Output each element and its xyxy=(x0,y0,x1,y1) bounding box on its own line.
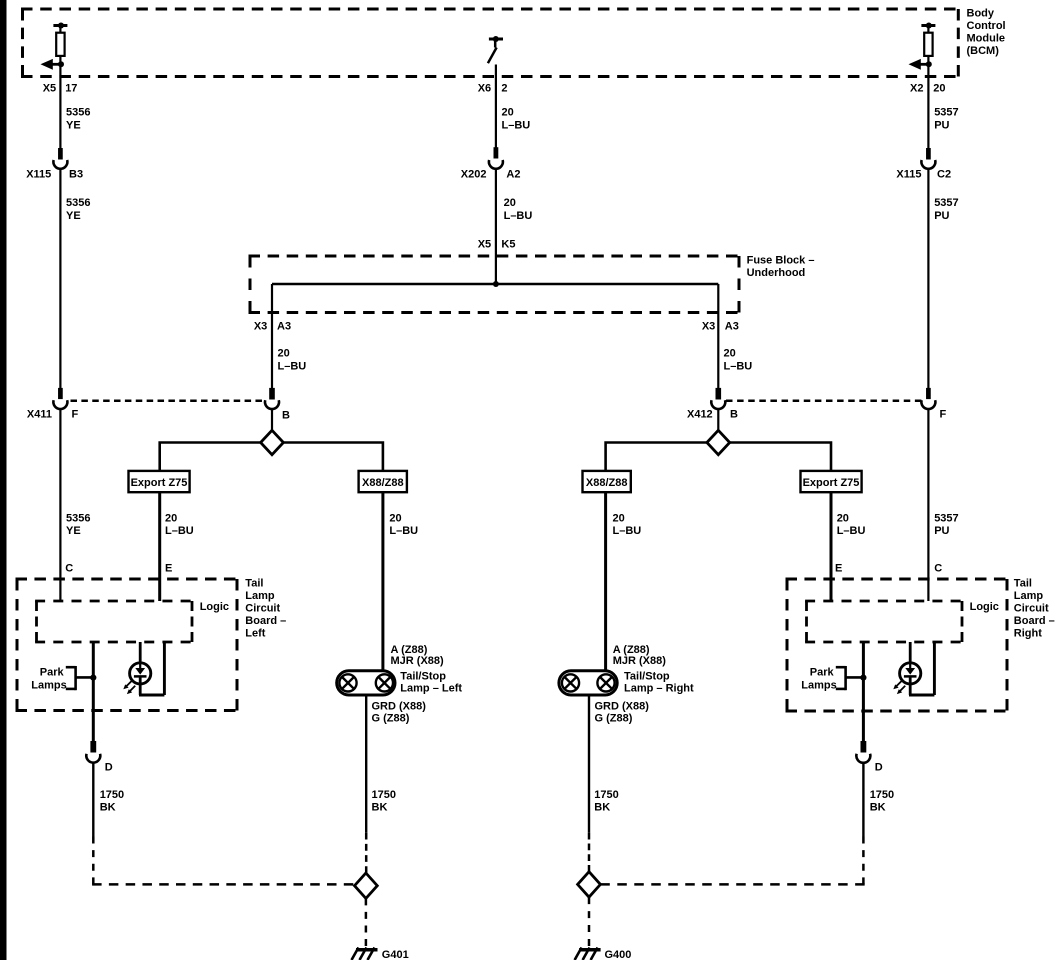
park lamps stub right xyxy=(836,666,862,690)
wire: splice to Export Z75 branch left xyxy=(160,443,261,472)
option box X88/Z88 right xyxy=(583,471,631,492)
svg-text:X5: X5 xyxy=(478,239,491,251)
svg-text:D: D xyxy=(875,762,883,774)
dashed wire: horizontal ground run right xyxy=(600,883,864,886)
svg-text:20: 20 xyxy=(389,513,401,525)
svg-text:B3: B3 xyxy=(69,169,83,181)
svg-text:Underhood: Underhood xyxy=(747,267,806,279)
junction node on bus xyxy=(493,281,499,287)
wire label 20 L-BU below Export right xyxy=(837,513,866,538)
svg-text:D: D xyxy=(105,762,113,774)
svg-text:L–BU: L–BU xyxy=(837,525,866,537)
dashed wire: splice to G400 xyxy=(588,897,591,946)
svg-text:Lamp – Right: Lamp – Right xyxy=(624,683,694,695)
svg-text:BK: BK xyxy=(372,802,388,814)
svg-text:Tail: Tail xyxy=(245,577,263,589)
svg-text:F: F xyxy=(72,408,79,420)
ground splice diamond left xyxy=(355,873,378,898)
svg-text:Control: Control xyxy=(967,20,1006,32)
svg-text:B: B xyxy=(730,408,738,420)
svg-text:A2: A2 xyxy=(506,169,520,181)
splice diamond right xyxy=(707,430,730,454)
svg-text:C: C xyxy=(65,562,73,574)
svg-text:MJR (X88): MJR (X88) xyxy=(391,655,445,667)
connector pin D left xyxy=(86,742,100,763)
svg-text:Right: Right xyxy=(1014,627,1042,639)
svg-text:Module: Module xyxy=(967,33,1006,45)
svg-text:L–BU: L–BU xyxy=(165,525,194,537)
svg-text:A (Z88): A (Z88) xyxy=(613,644,650,656)
svg-text:X6: X6 xyxy=(478,82,491,94)
svg-text:X88/Z88: X88/Z88 xyxy=(586,477,628,489)
svg-text:1750: 1750 xyxy=(100,789,124,801)
svg-text:G (Z88): G (Z88) xyxy=(595,713,633,725)
wire label 5356 YE xyxy=(66,197,90,222)
svg-text:20: 20 xyxy=(502,107,514,119)
BCM module box xyxy=(21,9,960,77)
Park Lamps label left xyxy=(31,667,66,692)
connector X411 pin F xyxy=(53,388,67,409)
wire label 20 L-BU below Export left xyxy=(165,513,194,538)
Tail Lamp Circuit Board Left box xyxy=(16,579,239,711)
wire: pin D down right xyxy=(862,762,864,836)
lamp name label left xyxy=(400,670,462,694)
svg-text:20: 20 xyxy=(165,513,177,525)
svg-text:X115: X115 xyxy=(26,169,51,181)
svg-text:5356: 5356 xyxy=(66,107,90,119)
svg-text:Board –: Board – xyxy=(245,615,286,627)
svg-text:20: 20 xyxy=(837,513,849,525)
svg-text:X3: X3 xyxy=(702,320,715,332)
pin label X5 17 xyxy=(43,82,78,94)
wire label 1750 BK left lamp xyxy=(372,789,396,814)
dashed wire: horizontal ground run left xyxy=(92,883,353,886)
ground splice diamond right xyxy=(578,872,601,897)
option box X88/Z88 left xyxy=(359,471,407,492)
svg-text:MJR (X88): MJR (X88) xyxy=(613,655,667,667)
svg-text:X5: X5 xyxy=(43,82,56,94)
svg-text:X115: X115 xyxy=(896,169,921,181)
svg-text:A (Z88): A (Z88) xyxy=(391,644,428,656)
junction node park lamps left xyxy=(90,675,96,681)
ground G400 symbol xyxy=(575,948,601,960)
svg-text:L–BU: L–BU xyxy=(502,119,531,131)
LED indicator right xyxy=(900,642,935,695)
Tail Lamp Circuit Board Right box xyxy=(786,579,1009,711)
svg-text:Park: Park xyxy=(40,667,65,679)
svg-text:5356: 5356 xyxy=(66,197,90,209)
board name label left xyxy=(245,577,286,639)
label X412 B xyxy=(687,408,738,420)
svg-text:X88/Z88: X88/Z88 xyxy=(362,477,404,489)
wire: X412 B to splice right xyxy=(717,409,719,432)
wire: pin D down left xyxy=(92,762,94,836)
wire: logic output down to pin D left xyxy=(92,642,95,742)
BCM left lamp driver xyxy=(41,23,68,70)
svg-text:Logic: Logic xyxy=(200,601,229,613)
connector X412 pin B left half xyxy=(265,388,279,409)
svg-text:L–BU: L–BU xyxy=(724,360,753,372)
wire label 5357 PU xyxy=(934,197,958,222)
pin label X6 2 xyxy=(478,82,508,94)
svg-text:Tail/Stop: Tail/Stop xyxy=(400,670,446,682)
wire: F down to board pin C right xyxy=(927,409,929,601)
label X115 C2 xyxy=(896,169,951,181)
svg-text:L–BU: L–BU xyxy=(278,360,307,372)
svg-text:YE: YE xyxy=(66,119,81,131)
lamp ground pin labels right xyxy=(595,701,650,725)
svg-text:Tail/Stop: Tail/Stop xyxy=(624,670,670,682)
svg-text:Left: Left xyxy=(245,627,265,639)
wire: BCM pin X2-20 down to connector X115 C2 xyxy=(927,64,929,149)
svg-text:Circuit: Circuit xyxy=(245,602,280,614)
svg-text:20: 20 xyxy=(724,348,736,360)
Logic box left xyxy=(35,601,193,642)
dashed tie line X412 to F right xyxy=(726,400,921,403)
svg-text:Export Z75: Export Z75 xyxy=(131,477,188,489)
svg-text:X3: X3 xyxy=(254,320,267,332)
svg-text:Export Z75: Export Z75 xyxy=(803,477,860,489)
wire label 5357 PU xyxy=(934,107,958,132)
wire: fuse block right drop X3-A3 xyxy=(717,284,719,389)
svg-text:L–BU: L–BU xyxy=(389,525,418,537)
svg-text:PU: PU xyxy=(934,210,949,222)
wire label 1750 BK right board xyxy=(870,789,894,814)
Park Lamps label right xyxy=(801,667,836,692)
svg-text:YE: YE xyxy=(66,525,81,537)
svg-text:X412: X412 xyxy=(687,408,713,420)
svg-text:GRD (X88): GRD (X88) xyxy=(372,701,427,713)
pin label X3 A3 right xyxy=(702,320,739,332)
wire: connector B to splice left xyxy=(271,409,273,432)
board name label right xyxy=(1014,577,1055,639)
svg-text:PU: PU xyxy=(934,119,949,131)
svg-text:Park: Park xyxy=(810,667,835,679)
svg-text:Fuse Block –: Fuse Block – xyxy=(747,255,815,267)
svg-text:20: 20 xyxy=(278,348,290,360)
svg-text:Body: Body xyxy=(967,8,995,20)
svg-text:G401: G401 xyxy=(382,949,409,960)
dashed wire: D to ground run right xyxy=(862,837,865,885)
svg-text:GRD (X88): GRD (X88) xyxy=(595,701,650,713)
wire: X88/Z88 to tail lamp right xyxy=(604,492,607,671)
wire: Export Z75 to board pin E right xyxy=(830,492,833,601)
lamp pin labels right xyxy=(613,644,667,667)
wire: BCM pin X5-17 down to connector X115 xyxy=(59,64,61,149)
wire: X411 F down to board pin C xyxy=(59,409,61,601)
svg-text:Lamp – Left: Lamp – Left xyxy=(400,683,462,695)
svg-text:1750: 1750 xyxy=(594,789,618,801)
svg-text:A3: A3 xyxy=(277,320,291,332)
svg-text:Logic: Logic xyxy=(970,601,999,613)
svg-text:Lamps: Lamps xyxy=(31,679,66,691)
wire: X202 A2 down to fuse block X5-K5 xyxy=(495,169,497,284)
park lamps stub left xyxy=(66,666,92,690)
LED indicator left xyxy=(130,642,165,695)
svg-text:Lamp: Lamp xyxy=(245,590,275,602)
dashed tie line X411 to X412 row left xyxy=(71,400,263,403)
svg-text:17: 17 xyxy=(65,82,77,94)
svg-text:5357: 5357 xyxy=(934,197,958,209)
wire label 1750 BK right lamp xyxy=(594,789,618,814)
connector X202 pin A2 xyxy=(489,148,503,169)
svg-text:Lamps: Lamps xyxy=(801,679,836,691)
svg-text:YE: YE xyxy=(66,210,81,222)
wire label 5356 YE xyxy=(66,513,90,538)
BCM park lamp switch xyxy=(488,36,503,63)
svg-text:X411: X411 xyxy=(27,408,52,420)
svg-text:(BCM): (BCM) xyxy=(967,45,1000,57)
svg-text:BK: BK xyxy=(594,802,610,814)
junction node park lamps right xyxy=(860,675,866,681)
wire label 20 L-BU below X88 right xyxy=(613,513,642,538)
svg-text:A3: A3 xyxy=(725,320,739,332)
Fuse Block label xyxy=(747,255,815,280)
wire: splice to X88/Z88 branch left xyxy=(283,443,383,472)
svg-text:G (Z88): G (Z88) xyxy=(372,713,410,725)
svg-text:C2: C2 xyxy=(937,169,951,181)
wire label 1750 BK left board xyxy=(100,789,124,814)
svg-text:PU: PU xyxy=(934,525,949,537)
lamp ground pin labels left xyxy=(372,701,427,725)
wire label 20 L-BU below X88 left xyxy=(389,513,418,538)
svg-text:X202: X202 xyxy=(461,169,487,181)
label X411 F xyxy=(27,408,79,420)
dashed wire: splice to G401 xyxy=(365,898,368,946)
label X115 B3 xyxy=(26,169,83,181)
LED light arrows right xyxy=(893,681,905,694)
splice diamond left xyxy=(261,430,284,454)
svg-text:Lamp: Lamp xyxy=(1014,590,1044,602)
lamp pin labels left xyxy=(391,644,445,667)
Tail/Stop Lamp Right bulb xyxy=(559,671,617,695)
lamp name label right xyxy=(624,670,694,694)
svg-text:5357: 5357 xyxy=(934,107,958,119)
svg-text:5357: 5357 xyxy=(934,513,958,525)
svg-text:L–BU: L–BU xyxy=(613,525,642,537)
svg-text:K5: K5 xyxy=(501,239,515,251)
wire label 20 L-BU right xyxy=(724,348,753,373)
svg-text:2: 2 xyxy=(501,82,507,94)
wire label 20 L-BU left xyxy=(278,348,307,373)
Fuse Block Underhood box xyxy=(249,256,741,313)
Logic box right xyxy=(805,601,963,642)
BCM right lamp driver xyxy=(909,23,936,70)
label X202 A2 xyxy=(461,169,521,181)
svg-text:G400: G400 xyxy=(605,949,632,960)
svg-text:20: 20 xyxy=(504,197,516,209)
connector X115 pin B3 xyxy=(53,149,67,169)
svg-text:Circuit: Circuit xyxy=(1014,602,1049,614)
wire label 20 L-BU xyxy=(504,197,533,222)
svg-text:20: 20 xyxy=(613,513,625,525)
wire: logic output down to pin D right xyxy=(862,642,865,742)
svg-text:L–BU: L–BU xyxy=(504,210,533,222)
wire label 5356 YE xyxy=(66,107,90,132)
wire: X88/Z88 to tail lamp left xyxy=(381,492,384,671)
svg-text:E: E xyxy=(165,562,172,574)
svg-text:B: B xyxy=(282,409,290,421)
BCM name label xyxy=(967,8,1006,58)
ground G401 symbol xyxy=(352,948,378,960)
svg-text:Tail: Tail xyxy=(1014,577,1032,589)
option box Export Z75 right xyxy=(801,471,862,492)
svg-text:X2: X2 xyxy=(910,82,923,94)
wire: fuse block left drop X3-A3 xyxy=(271,284,273,389)
option box Export Z75 left xyxy=(129,471,190,492)
connector X412 pin B xyxy=(711,388,725,409)
connector X115 pin C2 xyxy=(921,149,935,169)
wire: splice to X88/Z88 branch right xyxy=(606,443,708,472)
bus wire inside fuse block xyxy=(272,283,718,286)
pin label X5 K5 xyxy=(478,239,516,251)
pin label X3 A3 left xyxy=(254,320,291,332)
connector pin D right xyxy=(856,742,870,763)
svg-text:20: 20 xyxy=(933,82,945,94)
dashed wire: D to ground run left xyxy=(92,837,95,885)
svg-text:C: C xyxy=(934,562,942,574)
svg-text:E: E xyxy=(835,562,842,574)
svg-text:F: F xyxy=(940,408,947,420)
wire: X115 C2 down to F right xyxy=(927,169,929,389)
LED light arrows left xyxy=(123,681,135,694)
wire: lamp ground down left xyxy=(365,695,367,833)
wire: switch X6-2 down to X202 xyxy=(495,65,497,149)
dashed wire: lamp ground left xyxy=(365,833,368,873)
wire: X115 B3 down to X411 F xyxy=(59,169,61,389)
wire: Export Z75 to board pin E left xyxy=(158,492,161,601)
pin label X2 20 xyxy=(910,82,946,94)
Tail/Stop Lamp Left bulb xyxy=(337,671,395,695)
wire label 5357 PU xyxy=(934,513,958,538)
wire: lamp ground down right xyxy=(588,695,590,833)
svg-text:1750: 1750 xyxy=(870,789,894,801)
connector pin F right xyxy=(921,388,935,409)
wire label 20 L-BU xyxy=(502,107,531,132)
svg-text:BK: BK xyxy=(870,802,886,814)
svg-text:5356: 5356 xyxy=(66,513,90,525)
svg-text:Board –: Board – xyxy=(1014,615,1055,627)
dashed wire: lamp ground right xyxy=(588,833,591,872)
svg-text:BK: BK xyxy=(100,802,116,814)
svg-text:1750: 1750 xyxy=(372,789,396,801)
wire: splice to Export Z75 branch right xyxy=(729,443,831,472)
